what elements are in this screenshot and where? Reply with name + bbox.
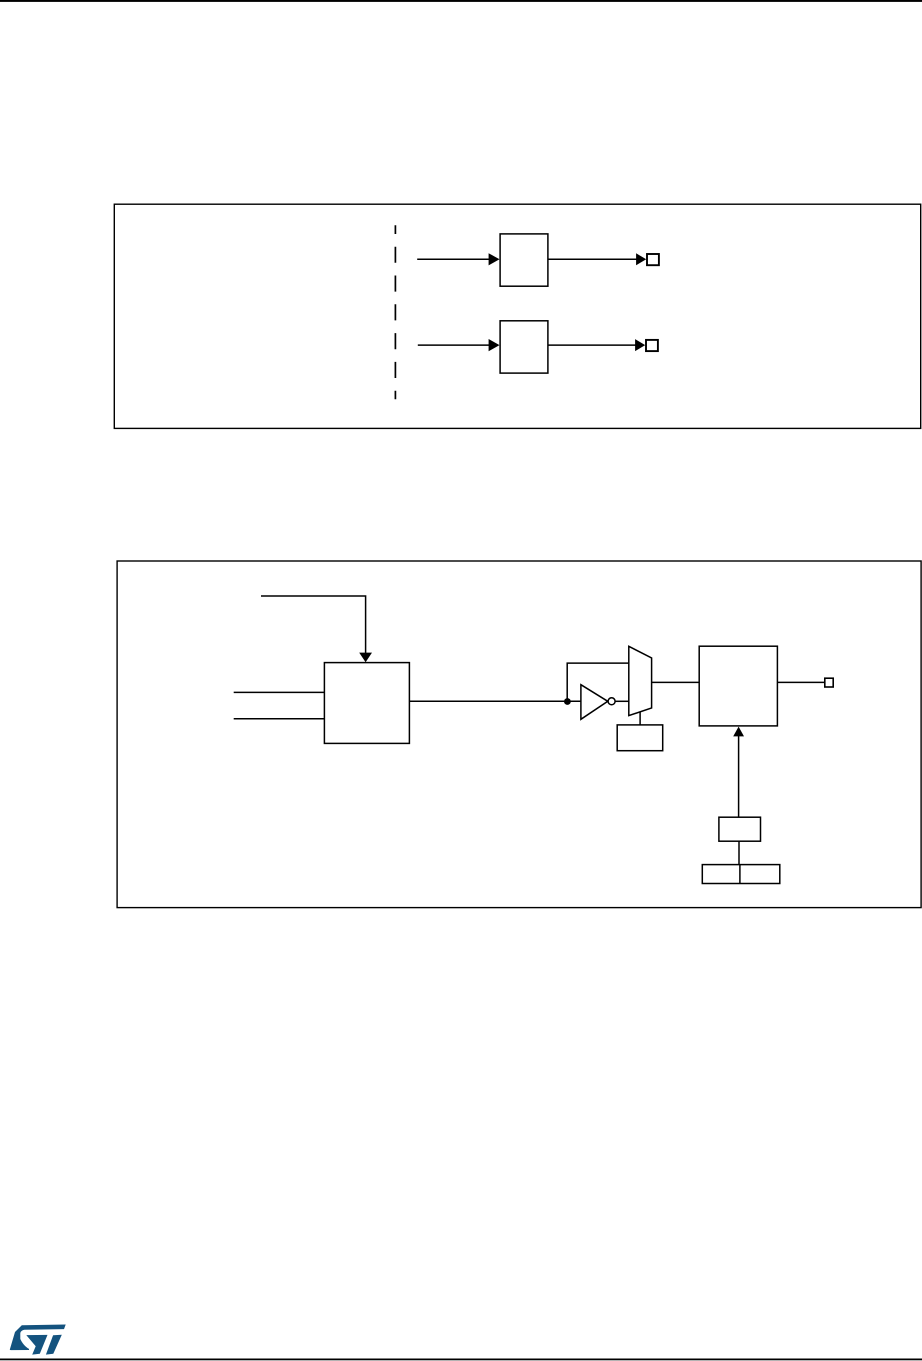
- register: R2 double cell: [702, 865, 780, 884]
- figure 2 frame: [117, 561, 921, 908]
- wire: input A: [234, 691, 325, 693]
- arrowhead into block B2: [489, 339, 500, 351]
- pad P3: [825, 678, 833, 687]
- register: reload R1: [719, 817, 761, 841]
- wire: bubble to mux input 1: [615, 700, 629, 702]
- figure 1 frame: [114, 204, 920, 428]
- wire: input B: [234, 718, 325, 720]
- block B1: [500, 234, 548, 286]
- register: mux control bit: [617, 725, 663, 751]
- wire: row2 output: [548, 344, 636, 346]
- arrowhead into pad P2: [635, 339, 645, 351]
- arrowhead into block B1: [489, 253, 500, 265]
- inverter U2 output bubble: [608, 698, 615, 705]
- wire: R1 to R2: [738, 841, 740, 864]
- wire: mux select: [639, 712, 641, 725]
- arrowhead into divider block: [359, 653, 372, 663]
- block: counter U4: [699, 646, 777, 726]
- wire: row1 input: [417, 258, 489, 260]
- wire: divider output to node N1: [409, 700, 581, 702]
- wire: mux output: [652, 681, 700, 683]
- arrowhead into counter U4: [733, 727, 744, 737]
- pad P1: [647, 254, 659, 265]
- wire: reload value: [738, 736, 740, 818]
- arrowhead into pad P1: [636, 253, 646, 265]
- wire: bypass to mux input 0: [567, 663, 629, 701]
- register R2 cell divider: [739, 865, 741, 884]
- bottom page rule: [0, 1359, 922, 1361]
- pad P2: [646, 340, 658, 351]
- top page rule: [0, 0, 922, 2]
- block B2: [500, 321, 548, 373]
- block: divider U1: [324, 663, 409, 744]
- dashed boundary line: [394, 225, 396, 399]
- wire: row2 input: [418, 344, 490, 346]
- node N1 junction dot: [564, 698, 571, 705]
- ST logo: [10, 1325, 66, 1355]
- wire: counter output: [777, 681, 824, 683]
- wire: row1 output: [548, 258, 637, 260]
- mux U3: [629, 646, 652, 715]
- wire: control input L-shape: [261, 596, 366, 654]
- inverter U2: [581, 685, 608, 720]
